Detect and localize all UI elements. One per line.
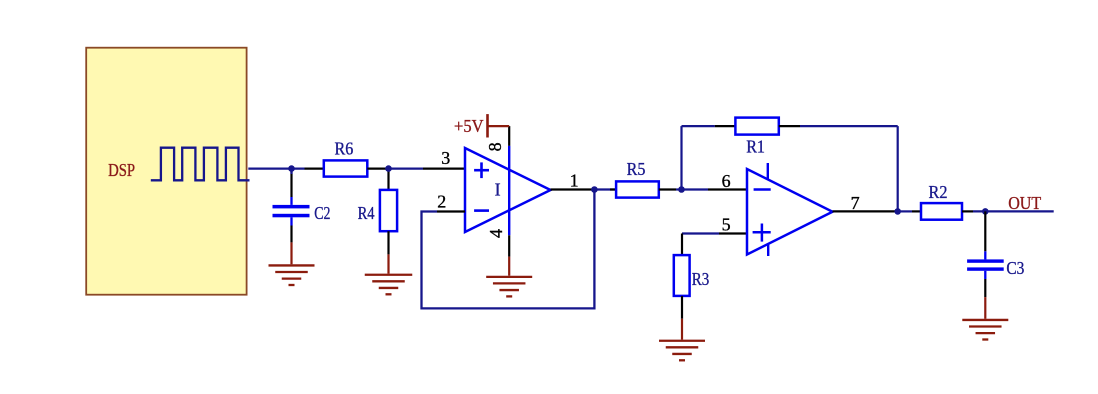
svg-text:OUT: OUT: [1008, 193, 1041, 213]
svg-text:1: 1: [570, 170, 579, 190]
svg-text:DSP: DSP: [108, 160, 135, 180]
svg-text:R2: R2: [929, 182, 948, 202]
svg-text:+5V: +5V: [454, 116, 484, 136]
svg-text:8: 8: [485, 142, 505, 151]
svg-text:R3: R3: [692, 269, 710, 289]
svg-text:R1: R1: [746, 136, 765, 156]
svg-text:C3: C3: [1006, 258, 1024, 278]
svg-text:I: I: [495, 179, 501, 199]
svg-text:C2: C2: [314, 203, 330, 223]
svg-text:R5: R5: [627, 159, 646, 179]
svg-text:5: 5: [722, 215, 731, 235]
svg-text:4: 4: [486, 229, 506, 238]
svg-text:R4: R4: [358, 203, 375, 223]
svg-text:7: 7: [851, 193, 860, 213]
svg-text:3: 3: [441, 148, 450, 168]
svg-text:R6: R6: [335, 139, 354, 159]
svg-text:6: 6: [722, 171, 731, 191]
svg-text:2: 2: [437, 192, 446, 212]
